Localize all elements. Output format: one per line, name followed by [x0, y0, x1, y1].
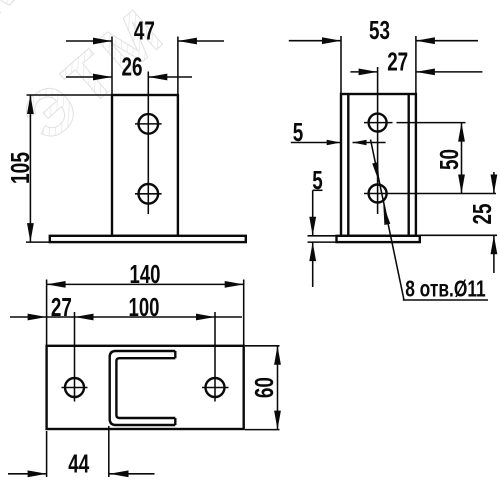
- plan hole right crosshair: [202, 387, 229, 389]
- arrow 25 bottom: [491, 235, 498, 254]
- watermark ETM diagonal: [9, 0, 181, 155]
- svg-text:5: 5: [293, 119, 304, 147]
- plan hole right: [206, 378, 225, 397]
- dim 5b vertical upper: [312, 190, 314, 236]
- front vertical centerline: [147, 72, 149, 215]
- arrow 60 top: [274, 346, 281, 365]
- dim 44 extension right: [108, 426, 110, 477]
- arrow 50 bottom: [458, 175, 465, 194]
- dim 60 extension bottom: [245, 429, 280, 431]
- base thickness extension bottom: [308, 241, 337, 243]
- arrow 105 top: [27, 95, 34, 114]
- dim 27 side line left: [350, 71, 377, 73]
- svg-text:44: 44: [68, 450, 90, 478]
- arrow 140 left: [47, 281, 66, 288]
- dim 53 line left tail: [289, 40, 341, 42]
- arrow 27 side right: [416, 69, 435, 76]
- arrow 5b upper: [309, 217, 316, 236]
- dim 44 line right tail: [110, 473, 155, 475]
- dim 47 line right tail: [178, 40, 224, 42]
- side hole upper: [369, 114, 387, 132]
- front hole lower crosshair: [135, 193, 162, 195]
- svg-text:27: 27: [387, 48, 408, 76]
- dim 60 line: [277, 346, 279, 430]
- svg-text:140: 140: [130, 261, 161, 289]
- svg-text:60: 60: [251, 377, 279, 398]
- svg-text:5: 5: [312, 167, 323, 195]
- plan U channel outer: [110, 351, 176, 425]
- dim 44 line left tail: [8, 473, 47, 475]
- arrow 60 bottom: [274, 411, 281, 430]
- dim 105 line: [29, 95, 31, 242]
- side column outline: [341, 94, 416, 236]
- arrow 5a left: [327, 140, 341, 146]
- front column plate: [112, 95, 178, 236]
- dim 53 line right tail: [416, 40, 478, 42]
- dim 26 line right tail: [148, 76, 192, 78]
- 25 bottom extension: [420, 234, 497, 236]
- leader arrow at hole lower-right: [383, 205, 390, 225]
- svg-text:26: 26: [122, 54, 143, 82]
- dim 25 upper tail: [493, 172, 495, 194]
- arrow 5b lower: [309, 242, 316, 261]
- dim 26 line left tail: [66, 76, 112, 78]
- plan hole left crosshair: [62, 387, 88, 389]
- svg-text:50: 50: [436, 149, 464, 170]
- front hole upper: [139, 114, 159, 134]
- side extension right: [415, 36, 417, 94]
- label underline: [403, 299, 488, 301]
- svg-text:25: 25: [469, 204, 497, 225]
- 50 extension from upper hole: [397, 122, 466, 124]
- dim 50 line: [461, 123, 463, 194]
- plan plate outline: [47, 346, 244, 429]
- svg-text:47: 47: [134, 18, 155, 46]
- dim 5b vertical lower tail: [312, 242, 314, 287]
- arrow 140 right: [225, 281, 244, 288]
- arrow 26 left: [93, 74, 112, 81]
- side flange inner line right: [408, 94, 410, 236]
- dim 60 extension top: [245, 345, 280, 347]
- arrow 105 bottom: [27, 223, 34, 242]
- arrow 53 left: [322, 37, 341, 44]
- arrow 5a right: [353, 140, 367, 146]
- watermark partial letter corner: [0, 0, 47, 63]
- dim 27 and 100 line: [10, 316, 242, 318]
- front hole upper crosshair: [135, 123, 162, 125]
- front extension left: [111, 37, 113, 96]
- svg-text:8 отв.Ø11: 8 отв.Ø11: [405, 276, 486, 302]
- svg-text:100: 100: [129, 294, 160, 322]
- dim 44 extension left: [46, 431, 48, 477]
- front hole lower: [139, 184, 159, 204]
- dim 47 line left tail: [66, 40, 112, 42]
- dim 105 extension bottom: [26, 241, 50, 243]
- side flange inner line left: [347, 94, 349, 236]
- plan hole left centerline: [74, 312, 76, 402]
- arrow 44 right: [110, 470, 129, 477]
- front extension right: [177, 37, 179, 96]
- dim 27 side line right tail: [416, 71, 483, 73]
- side extension left: [340, 36, 342, 94]
- dim 105 extension top: [27, 94, 113, 96]
- dim 25 lower tail: [493, 235, 495, 273]
- arrow 26 right: [148, 74, 167, 81]
- svg-text:53: 53: [369, 17, 390, 45]
- arrow 27 plan: [28, 314, 47, 321]
- leader line to holes: [371, 140, 405, 301]
- leader arrow pointing down at hole top: [372, 162, 379, 182]
- plan U end cap bottom: [174, 418, 176, 425]
- arrow 47 left: [93, 38, 112, 45]
- side hole upper crosshair: [364, 122, 393, 124]
- dim 5a line right: [353, 142, 386, 144]
- svg-text:105: 105: [7, 152, 35, 184]
- plan hole right centerline: [214, 312, 216, 402]
- side hole lower: [369, 185, 387, 203]
- side hole lower crosshair and 25 extension: [364, 193, 496, 195]
- plan U end cap top: [174, 351, 176, 358]
- arrow 53 right: [416, 37, 435, 44]
- arrow 100 left: [75, 314, 94, 321]
- plan U channel inner: [116, 358, 175, 418]
- side vertical centerline: [377, 67, 379, 214]
- dim 140 line: [47, 283, 244, 285]
- svg-text:27: 27: [51, 294, 72, 322]
- arrow 27 side left: [359, 69, 378, 76]
- side base plate: [337, 236, 420, 242]
- plan hole left: [65, 378, 84, 397]
- arrow 47 right: [178, 38, 197, 45]
- plan extension left: [46, 280, 48, 346]
- dim 5a line left: [291, 142, 341, 144]
- base thickness extension top: [308, 235, 337, 237]
- arrow 25 top: [491, 175, 498, 194]
- arrow 100 right: [196, 314, 215, 321]
- arrow 44 left: [28, 470, 47, 477]
- plan extension right: [243, 280, 245, 346]
- arrow 50 top: [458, 123, 465, 142]
- front base plate: [50, 236, 246, 242]
- dim 5b shelf: [313, 189, 323, 191]
